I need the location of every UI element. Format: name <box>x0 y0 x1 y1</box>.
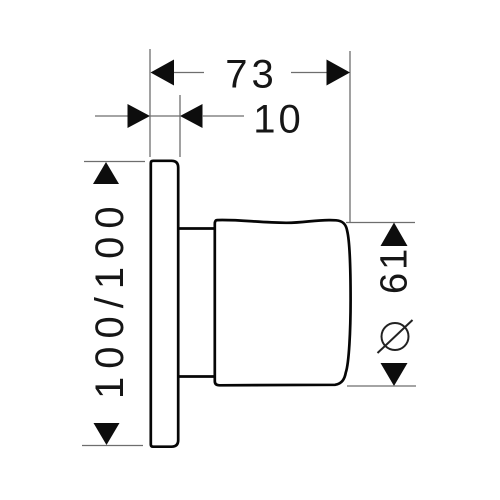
valve stem housing bottom line <box>178 375 215 378</box>
extension line left edge (x=150) above plate <box>149 49 151 157</box>
diameter symbol circle <box>382 323 409 350</box>
dimension 100/100 bottom extension line <box>82 445 143 447</box>
dimension 61 arrow down <box>381 363 408 386</box>
dimension 100/100 arrow up <box>93 162 119 184</box>
dimension 100/100 arrow down <box>94 423 120 445</box>
handle knob (side view) <box>215 220 351 385</box>
dimension 10 line between extension lines <box>150 115 180 117</box>
dimension 10 arrow left <box>128 104 151 128</box>
svg-text:100/100: 100/100 <box>88 198 132 399</box>
dimension 61 bottom extension line <box>347 385 416 387</box>
dimension 73 line left segment <box>171 72 204 74</box>
extension line plate right edge (x=180) <box>179 95 181 157</box>
svg-text:10: 10 <box>253 98 304 142</box>
escutcheon plate (side view) <box>151 161 178 447</box>
dimension 10 tail left <box>95 115 129 117</box>
extension line knob front (x=350) <box>349 51 351 223</box>
svg-text:61: 61 <box>374 246 416 294</box>
dimension 61 arrow up <box>381 223 408 247</box>
dimension 100/100 top extension line <box>84 161 145 163</box>
dimension 10 arrow right <box>180 104 203 128</box>
dimension 73 arrow left <box>151 60 175 86</box>
diameter symbol slash <box>378 320 413 353</box>
dimension 61 top extension line <box>346 222 415 224</box>
svg-text:73: 73 <box>225 53 278 97</box>
dimension 73 line right segment <box>291 72 328 74</box>
dimension 10 tail right <box>202 115 244 117</box>
dimension 73 arrow right <box>327 60 351 86</box>
valve stem housing top line <box>178 227 215 230</box>
